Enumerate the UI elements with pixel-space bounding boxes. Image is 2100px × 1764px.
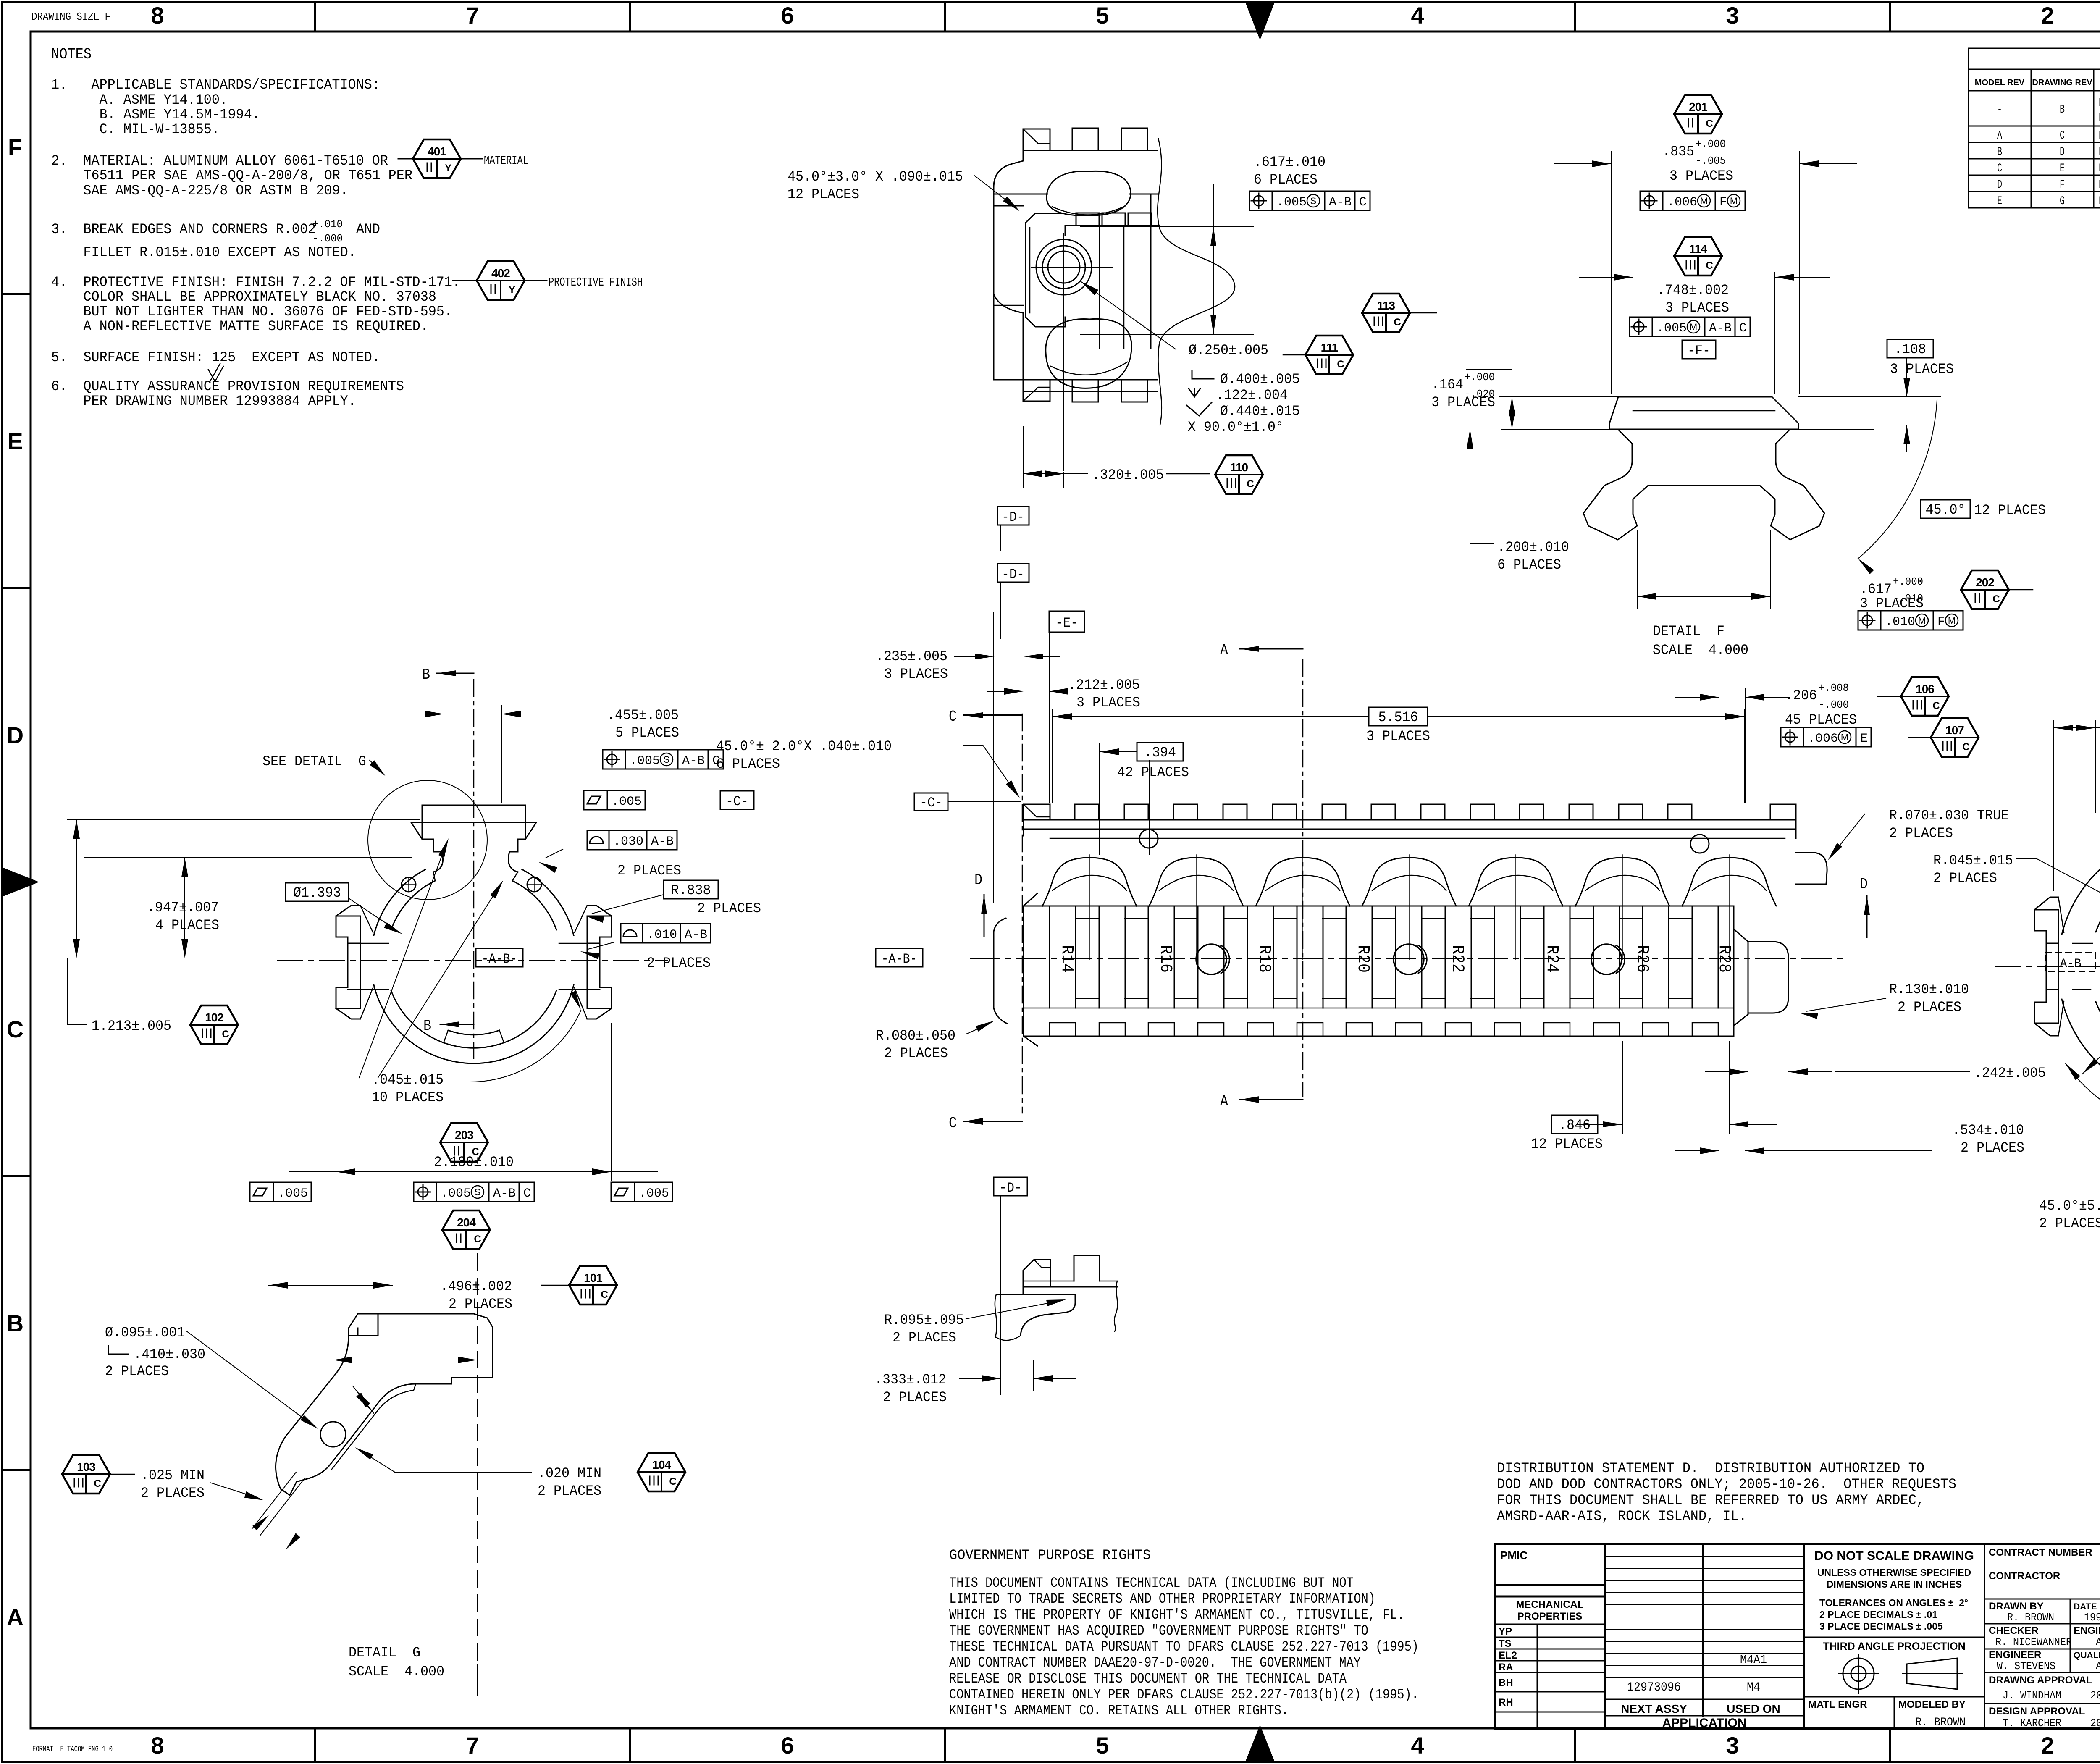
dimension R.838 [664, 880, 718, 899]
svg-text:E: E [2060, 162, 2065, 175]
svg-text:12 PLACES: 12 PLACES [1531, 1137, 1603, 1152]
svg-text:113: 113 [1377, 299, 1395, 312]
svg-text:SCALE 4.000: SCALE 4.000 [1653, 643, 1748, 659]
svg-text:8: 8 [151, 2, 164, 29]
svg-text:MATERIAL: MATERIAL [484, 154, 528, 168]
left view ring outer arcs [522, 869, 574, 935]
flag 202 [1961, 570, 2009, 609]
flag 203 [440, 1123, 488, 1162]
svg-text:RH: RH [1499, 1697, 1513, 1708]
svg-text:12 PLACES: 12 PLACES [787, 187, 859, 203]
flag 401 leader [398, 158, 413, 160]
center mark arrow left [3, 868, 39, 896]
dimension diameter 1.393 [286, 883, 349, 901]
datum -E- box [1049, 611, 1084, 632]
svg-text:B: B [7, 1310, 24, 1336]
svg-text:Ø.095±.001: Ø.095±.001 [105, 1325, 185, 1341]
svg-text:R24: R24 [1542, 945, 1561, 973]
svg-text:6: 6 [781, 2, 794, 29]
svg-text:Ø.250±.005: Ø.250±.005 [1189, 343, 1268, 359]
main view lower band left end [1024, 893, 1037, 1046]
svg-text:A-B: A-B [685, 928, 707, 942]
note 5 surface finish symbol [210, 364, 220, 381]
svg-text:3 PLACES: 3 PLACES [1431, 395, 1495, 411]
svg-text:C: C [2060, 129, 2065, 142]
svg-text:C: C [1932, 700, 1940, 711]
svg-text:C: C [1394, 317, 1401, 328]
svg-text:3 PLACES: 3 PLACES [1665, 300, 1729, 316]
svg-text:5: 5 [1096, 1732, 1109, 1759]
svg-text:AND: AND [356, 222, 380, 238]
svg-text:.005: .005 [612, 795, 642, 809]
svg-text:4 PLACES: 4 PLACES [155, 918, 219, 934]
fcf .206 position [1785, 732, 1795, 742]
svg-text:.235±.005: .235±.005 [876, 649, 948, 665]
view section D-D lower flange [993, 294, 995, 380]
svg-text:A: A [7, 1604, 24, 1630]
svg-text:8: 8 [151, 1732, 164, 1759]
main view scallops [1042, 858, 1137, 906]
svg-text:.005: .005 [441, 1186, 471, 1201]
section A-A line [1302, 659, 1304, 1096]
dimension .200 left outer arrows [1467, 429, 1473, 449]
svg-text:.006: .006 [1667, 195, 1697, 210]
svg-text:SEE DETAIL G: SEE DETAIL G [262, 754, 366, 770]
main view lower band right end [1733, 906, 1735, 1036]
datum -C- box main [914, 793, 948, 811]
main view top rail bar [1024, 829, 1796, 830]
svg-text:107: 107 [1945, 724, 1964, 737]
svg-text:BUT NOT LIGHTER THAN NO. 36076: BUT NOT LIGHTER THAN NO. 36076 OF FED-ST… [51, 304, 452, 320]
svg-text:FOR THIS DOCUMENT SHALL BE REF: FOR THIS DOCUMENT SHALL BE REFERRED TO U… [1497, 1493, 1924, 1509]
svg-text:2. MATERIAL: ALUMINUM ALLOY 6: 2. MATERIAL: ALUMINUM ALLOY 6061-T6510 O… [51, 153, 388, 169]
datum -A-B- box [476, 948, 523, 967]
svg-text:R18: R18 [1255, 945, 1273, 973]
svg-text:ENGINEER: ENGINEER [2074, 1625, 2100, 1636]
svg-text:203: 203 [455, 1129, 473, 1142]
view section D-D counterbore circles [1036, 239, 1092, 295]
main view horizontal centerline [970, 958, 1848, 959]
svg-text:.410±.030: .410±.030 [134, 1347, 205, 1363]
svg-text:M: M [1841, 732, 1848, 743]
svg-text:-C-: -C- [920, 795, 942, 811]
main view lower rail band [1024, 906, 1734, 907]
svg-text:5 PLACES: 5 PLACES [615, 725, 679, 741]
svg-text:4. PROTECTIVE FINISH: FINISH: 4. PROTECTIVE FINISH: FINISH 7.2.2 OF MI… [51, 275, 460, 291]
svg-text:AND CONTRACT NUMBER DAAE20-97-: AND CONTRACT NUMBER DAAE20-97-D-0020. TH… [949, 1655, 1361, 1671]
svg-text:.496±.002: .496±.002 [440, 1279, 512, 1295]
svg-text:12 PLACES: 12 PLACES [1974, 503, 2046, 519]
flag 402 protective finish [477, 261, 525, 300]
svg-text:101: 101 [584, 1271, 602, 1284]
svg-text:C: C [1706, 260, 1713, 271]
small view part outline [1023, 1260, 1050, 1287]
svg-text:A-B: A-B [651, 835, 674, 849]
svg-text:.394: .394 [1144, 745, 1176, 761]
svg-text:45 PLACES: 45 PLACES [1785, 712, 1857, 728]
svg-text:2006-01-24: 2006-01-24 [2090, 1717, 2100, 1730]
svg-text:A NON-REFLECTIVE MATTE SURFACE: A NON-REFLECTIVE MATTE SURFACE IS REQUIR… [51, 319, 428, 335]
svg-text:MODEL REV: MODEL REV [1975, 78, 2025, 87]
svg-text:Ø.400±.005: Ø.400±.005 [1220, 372, 1300, 388]
svg-text:R20: R20 [1353, 945, 1372, 973]
left view section B-B centerline [473, 680, 475, 1058]
svg-text:45.0°±3.0° X .090±.015: 45.0°±3.0° X .090±.015 [787, 169, 963, 185]
svg-text:.005: .005 [1656, 321, 1687, 336]
svg-text:Y: Y [445, 163, 451, 174]
svg-text:RA: RA [1499, 1662, 1513, 1673]
left view horizontal centerline [277, 960, 668, 961]
right view horizontal centerline [1995, 966, 2100, 967]
right view diagonal diameter leader [2082, 867, 2100, 1074]
svg-text:2.180±.010: 2.180±.010 [434, 1155, 514, 1171]
section C-C line [1022, 714, 1023, 1113]
svg-text:2006-01-24: 2006-01-24 [2090, 1689, 2100, 1702]
matl engr / modeled by cells [1804, 1696, 1984, 1698]
svg-text:D: D [974, 871, 982, 889]
svg-text:2 PLACES: 2 PLACES [892, 1330, 956, 1346]
svg-text:.025 MIN: .025 MIN [141, 1468, 205, 1484]
svg-text:D: D [1860, 876, 1868, 893]
flag 110 [1215, 455, 1263, 494]
svg-text:F: F [1719, 195, 1727, 210]
svg-text:A. KONG: A. KONG [2096, 1660, 2100, 1672]
svg-text:114: 114 [1689, 242, 1708, 255]
dimension .947 4 places [67, 819, 420, 820]
svg-text:2 PLACES: 2 PLACES [883, 1390, 947, 1406]
svg-text:6 PLACES: 6 PLACES [716, 756, 780, 772]
svg-text:A: A [1220, 642, 1228, 659]
datum -D- box upper [997, 507, 1029, 525]
svg-text:.005: .005 [278, 1186, 308, 1201]
dimension arrows .206 on rail [1719, 689, 1719, 803]
svg-text:C: C [669, 1476, 676, 1487]
svg-text:C: C [1247, 478, 1254, 490]
title block outer frame [1495, 1544, 2100, 1728]
dimension .108 box [1823, 396, 1940, 397]
svg-text:3 PLACES: 3 PLACES [1890, 362, 1954, 378]
fcf for .617 bottom [1862, 615, 1872, 625]
svg-text:.617±.010: .617±.010 [1254, 155, 1326, 171]
svg-text:3. BREAK EDGES AND CORNERS R.: 3. BREAK EDGES AND CORNERS R.002 [51, 222, 316, 238]
svg-text:-A-B-: -A-B- [882, 951, 917, 967]
svg-text:.010: .010 [647, 928, 677, 942]
svg-text:DESIGN APPROVAL: DESIGN APPROVAL [1989, 1706, 2085, 1717]
svg-text:PER DRAWING NUMBER 12993884 AP: PER DRAWING NUMBER 12993884 APPLY. [51, 394, 356, 409]
svg-text:C: C [94, 1478, 101, 1489]
left view top rail tab [422, 805, 525, 839]
svg-text:UNLESS OTHERWISE SPECIFIED: UNLESS OTHERWISE SPECIFIED [1817, 1567, 1971, 1578]
svg-text:1997-11-14: 1997-11-14 [2084, 1611, 2100, 1624]
dimension .835 extension and arrows [1611, 151, 1612, 394]
left view neck shoulders [433, 852, 443, 872]
flag 104 [638, 1453, 685, 1491]
svg-text:C: C [1997, 162, 2002, 175]
svg-text:C. MIL-W-13855.: C. MIL-W-13855. [51, 122, 220, 138]
dimension .372 2 places [2053, 720, 2054, 890]
svg-text:3 PLACES: 3 PLACES [1076, 695, 1140, 711]
center mark arrow top [1246, 3, 1274, 40]
svg-text:A-B: A-B [493, 1186, 516, 1201]
svg-text:C: C [523, 1186, 531, 1201]
svg-text:+.008: +.008 [1819, 682, 1849, 694]
svg-text:X 90.0°±1.0°: X 90.0°±1.0° [1188, 420, 1284, 436]
svg-text:R. BROWN: R. BROWN [1915, 1716, 1966, 1729]
view section D-D top rail teeth [1072, 128, 1098, 150]
svg-text:45.0°: 45.0° [1926, 502, 1966, 518]
svg-text:Ø1.393: Ø1.393 [293, 885, 341, 901]
svg-text:THESE TECHNICAL DATA PURSUANT: THESE TECHNICAL DATA PURSUANT TO DFARS C… [949, 1639, 1419, 1655]
svg-text:E: E [1860, 732, 1868, 746]
svg-text:.835: .835 [1662, 144, 1694, 160]
flag 103 [62, 1455, 110, 1494]
svg-text:102: 102 [205, 1011, 223, 1024]
view section D-D central boss body [1065, 226, 1066, 235]
svg-text:2 PLACES: 2 PLACES [884, 1046, 948, 1062]
svg-text:DRAWN BY: DRAWN BY [1989, 1601, 2044, 1612]
left view neck connections [433, 872, 435, 881]
view section D-D central boss teeth [1076, 213, 1099, 226]
fcf profile .030 A-B [590, 837, 603, 843]
svg-text:TOLERANCES ON ANGLES ± 2°: TOLERANCES ON ANGLES ± 2° [1819, 1597, 1968, 1608]
svg-text:D: D [2060, 146, 2065, 159]
svg-text:R.838: R.838 [671, 883, 711, 899]
svg-text:BH: BH [1499, 1677, 1513, 1688]
svg-text:F: F [1937, 615, 1945, 629]
svg-text:.846: .846 [1559, 1118, 1591, 1134]
svg-text:R. NICEWANNER: R. NICEWANNER [1995, 1636, 2072, 1648]
left view ring inner arcs [512, 881, 556, 930]
svg-text:.320±.005: .320±.005 [1092, 467, 1164, 483]
svg-text:SAE AMS-QQ-A-225/8 OR ASTM B 2: SAE AMS-QQ-A-225/8 OR ASTM B 209. [51, 183, 348, 199]
svg-text:YP: YP [1499, 1626, 1512, 1637]
svg-text:402: 402 [491, 267, 510, 280]
main view web holes [1139, 829, 1158, 848]
flag 113 [1362, 294, 1410, 332]
svg-text:S: S [475, 1187, 481, 1197]
svg-text:M: M [1918, 615, 1926, 626]
svg-text:6: 6 [781, 1732, 794, 1759]
fcf position 2.180 [418, 1187, 428, 1197]
svg-text:104: 104 [652, 1458, 671, 1471]
svg-text:A-B: A-B [2060, 957, 2082, 971]
fcf flatness left [253, 1188, 267, 1196]
svg-text:CONTAINED HEREIN ONLY PER DFAR: CONTAINED HEREIN ONLY PER DFARS CLAUSE 2… [949, 1687, 1419, 1703]
svg-text:-E-: -E- [1055, 615, 1078, 631]
svg-text:CHECKER: CHECKER [1989, 1625, 2039, 1636]
svg-text:FORMAT: F_TACOM_ENG_1_0: FORMAT: F_TACOM_ENG_1_0 [32, 1745, 113, 1754]
mechanical properties cell [1495, 1596, 1605, 1598]
flag 102 [190, 1005, 238, 1044]
svg-text:THIRD ANGLE PROJECTION: THIRD ANGLE PROJECTION [1823, 1641, 1965, 1652]
svg-text:D: D [1997, 178, 2002, 192]
left view 45 deg arc leader [467, 1011, 581, 1082]
svg-text:.030: .030 [613, 835, 643, 849]
dimension .496 2 places [269, 1285, 393, 1286]
title block main verticals [1604, 1544, 1606, 1728]
view section D-D upper blob cutout [1047, 171, 1131, 215]
svg-text:R. BROWN: R. BROWN [2007, 1611, 2054, 1624]
svg-text:B: B [2060, 103, 2065, 116]
detail F rail profile outline [1583, 397, 1824, 540]
main view top rail teeth [1024, 819, 1796, 821]
svg-text:103: 103 [77, 1460, 95, 1473]
svg-text:M: M [1690, 322, 1697, 332]
svg-text:3 PLACES: 3 PLACES [1366, 729, 1430, 745]
svg-text:201: 201 [1689, 100, 1707, 113]
svg-text:C: C [1359, 195, 1367, 210]
mechanical properties rows [1537, 1624, 1538, 1728]
main view top rail left end [1024, 804, 1050, 836]
svg-text:DRAWING REV: DRAWING REV [2032, 78, 2092, 87]
svg-text:B. ASME Y14.5M-1994.: B. ASME Y14.5M-1994. [51, 107, 260, 123]
main view lower band slots [1049, 906, 1050, 1008]
svg-text:R14: R14 [1057, 945, 1076, 973]
svg-text:3 PLACES: 3 PLACES [884, 667, 948, 682]
svg-text:.006: .006 [1808, 732, 1838, 746]
svg-text:2 PLACES: 2 PLACES [1933, 871, 1997, 887]
flag 204 [442, 1210, 490, 1249]
left view left rail tab [336, 916, 360, 1008]
dimension .242 [1748, 1021, 1748, 1084]
svg-text:-F-: -F- [1688, 343, 1710, 359]
svg-text:-D-: -D- [1002, 509, 1024, 525]
svg-text:C: C [949, 1115, 957, 1132]
left view bottom inner hooks [444, 1030, 448, 1043]
left view see detail G circle [368, 780, 487, 900]
svg-text:S: S [664, 754, 670, 765]
svg-text:DOD AND DOD CONTRACTORS ONLY;: DOD AND DOD CONTRACTORS ONLY; 2005-10-26… [1497, 1477, 1956, 1493]
main view hole circles [1196, 944, 1226, 974]
dimension .748 extensions [1633, 272, 1633, 394]
svg-text:EL2: EL2 [1499, 1650, 1517, 1661]
svg-text:B: B [423, 1017, 431, 1034]
svg-text:DIMENSIONS ARE IN INCHES: DIMENSIONS ARE IN INCHES [1827, 1579, 1962, 1590]
svg-text:-.000: -.000 [1819, 698, 1849, 711]
fcf for .835 [1644, 196, 1654, 206]
svg-text:B: B [422, 666, 430, 683]
svg-text:CONTRACTOR: CONTRACTOR [1989, 1570, 2060, 1582]
svg-text:.045±.015: .045±.015 [372, 1072, 444, 1088]
svg-text:PROTECTIVE FINISH: PROTECTIVE FINISH [549, 276, 643, 289]
view section D-D left break edge [993, 235, 995, 294]
svg-text:J. WINDHAM: J. WINDHAM [2003, 1689, 2061, 1702]
svg-text:S: S [1310, 196, 1317, 206]
svg-text:.200±.010: .200±.010 [1497, 540, 1569, 556]
view section D-D boss centerlines [1031, 267, 1112, 268]
svg-text:FILLET R.015±.010 EXCEPT AS NO: FILLET R.015±.010 EXCEPT AS NOTED. [51, 245, 356, 261]
flag 201 [1674, 95, 1722, 134]
center mark arrow bottom [1246, 1725, 1274, 1761]
fcf .455 [607, 754, 617, 764]
svg-text:M: M [1730, 196, 1738, 206]
svg-text:A-B: A-B [1709, 321, 1732, 336]
flag 402 leader [453, 280, 477, 281]
svg-text:2 PLACES: 2 PLACES [105, 1364, 169, 1380]
dimension 45.0 12 places [1921, 500, 1970, 518]
svg-text:.947±.007: .947±.007 [147, 900, 219, 916]
svg-text:E: E [1997, 195, 2002, 208]
svg-text:NOTES: NOTES [51, 46, 92, 63]
svg-text:B: B [1997, 146, 2002, 159]
svg-text:3 PLACE DECIMALS ± .005: 3 PLACE DECIMALS ± .005 [1819, 1621, 1943, 1632]
svg-text:6. QUALITY ASSURANCE PROVISIO: 6. QUALITY ASSURANCE PROVISION REQUIREME… [51, 379, 404, 395]
svg-text:-A-B-: -A-B- [482, 951, 517, 967]
svg-text:DETAIL G: DETAIL G [349, 1645, 420, 1661]
main view right end stud [1796, 853, 1827, 884]
svg-text:.020 MIN: .020 MIN [538, 1466, 601, 1482]
dimension .394 42 places [1099, 743, 1100, 855]
svg-text:WHICH IS THE PROPERTY OF KNIGH: WHICH IS THE PROPERTY OF KNIGHT'S ARMAME… [949, 1607, 1404, 1623]
application header cells [1605, 1699, 1804, 1700]
svg-text:G: G [2060, 195, 2065, 208]
svg-text:.212±.005: .212±.005 [1068, 677, 1140, 693]
svg-text:A-B: A-B [1329, 195, 1352, 210]
view section D-D bottom rail teeth [1023, 380, 1050, 401]
svg-text:42 PLACES: 42 PLACES [1117, 765, 1189, 781]
dimension 5.516 [1052, 710, 1053, 803]
svg-text:.748±.002: .748±.002 [1657, 283, 1729, 299]
projection symbol [1843, 1658, 1874, 1689]
svg-text:COLOR SHALL BE APPROXIMATELY B: COLOR SHALL BE APPROXIMATELY BLACK NO. 3… [51, 289, 436, 305]
view section D-D lower blob cutout [1046, 319, 1131, 388]
svg-text:.005: .005 [639, 1186, 669, 1201]
detail G hole [320, 1422, 346, 1447]
svg-text:A-B: A-B [682, 754, 705, 768]
svg-text:-.005: -.005 [1696, 155, 1726, 167]
dimension 1.213 with flag 102 [67, 958, 68, 1025]
svg-text:.534±.010: .534±.010 [1952, 1123, 2024, 1139]
svg-text:QUALITY ENGINEER: QUALITY ENGINEER [2074, 1651, 2100, 1660]
svg-text:R.070±.030 TRUE: R.070±.030 TRUE [1889, 808, 2009, 824]
svg-text:Ø.440±.015: Ø.440±.015 [1220, 404, 1300, 420]
svg-text:+.000: +.000 [1465, 371, 1495, 383]
svg-text:111: 111 [1321, 341, 1338, 354]
revisions table frame [1969, 48, 2100, 208]
svg-text:R.045±.015: R.045±.015 [1933, 853, 2013, 869]
approval rows [1984, 1599, 2100, 1600]
svg-text:.242±.005: .242±.005 [1974, 1066, 2046, 1081]
svg-text:C: C [474, 1234, 481, 1245]
view section D-D wavy break line [1158, 139, 1235, 425]
left view side slot lines [360, 943, 388, 944]
zone column ticks top/bottom [314, 2, 316, 31]
svg-text:USED ON: USED ON [1727, 1702, 1780, 1715]
svg-text:MECHANICAL: MECHANICAL [1516, 1599, 1583, 1610]
svg-text:R16: R16 [1156, 945, 1175, 973]
svg-text:PMIC: PMIC [1500, 1549, 1528, 1562]
main view right end tab [1748, 942, 1788, 1013]
svg-text:DRAWING SIZE F: DRAWING SIZE F [31, 10, 110, 23]
svg-text:3: 3 [1726, 1732, 1739, 1759]
svg-text:R26: R26 [1633, 945, 1651, 973]
svg-text:.005: .005 [630, 754, 660, 768]
third angle projection cell [1804, 1637, 1984, 1638]
detail F inner lines [1618, 429, 1790, 430]
svg-text:-D-: -D- [1002, 567, 1024, 582]
svg-text:2 PLACES: 2 PLACES [1898, 1000, 1961, 1016]
svg-text:T. KARCHER: T. KARCHER [2003, 1717, 2061, 1730]
flag 101 [569, 1266, 617, 1305]
svg-text:LIMITED TO TRADE SECRETS AND O: LIMITED TO TRADE SECRETS AND OTHER PROPR… [949, 1591, 1375, 1607]
dimension .617 ±.010 6 places with FCF [1080, 226, 1254, 227]
svg-text:C: C [7, 1016, 24, 1042]
svg-text:.164: .164 [1431, 377, 1463, 393]
svg-text:RELEASE OR DISCLOSE THIS DOCUM: RELEASE OR DISCLOSE THIS DOCUMENT OR THE… [949, 1671, 1347, 1687]
datum -F- box [1682, 340, 1716, 359]
svg-text:2: 2 [2041, 1732, 2054, 1759]
fcf flatness right [614, 1188, 628, 1196]
